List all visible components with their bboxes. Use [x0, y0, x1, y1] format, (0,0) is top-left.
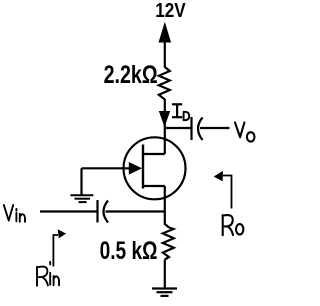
supply arrow up [159, 24, 170, 67]
channel bar [142, 145, 144, 189]
label Ro [223, 215, 244, 235]
capacitor C1 input [98, 200, 109, 223]
source lead [164, 186, 166, 213]
annotation arrow Rin [53, 235, 58, 267]
drain contact [143, 153, 165, 155]
capacitor C2 output [192, 117, 203, 140]
resistor R2 0.5k zigzag [163, 228, 174, 260]
wire source junction down with jog [165, 212, 169, 228]
gate arrow [129, 163, 141, 174]
label Vo [235, 123, 255, 142]
wire drain rail [164, 101, 166, 154]
gate ground stem [80, 168, 82, 195]
wire cap to Vo [200, 127, 230, 129]
wire Vin to cap [40, 210, 97, 212]
source contact [143, 185, 165, 187]
resistor R1 2.2k zigzag [159, 66, 170, 101]
svg-text:0.5 kΩ: 0.5 kΩ [100, 237, 158, 265]
wire cap to source junction [106, 210, 165, 212]
wire drain to output cap [165, 127, 191, 129]
ground GND2 [152, 289, 177, 296]
ground GND1 [70, 195, 93, 202]
wire resistor to ground [164, 260, 166, 289]
current arrow ID [160, 112, 170, 126]
svg-text:12V: 12V [155, 0, 186, 22]
label Rin [37, 262, 59, 286]
annotation arrow Ro [223, 176, 232, 209]
label Vin [4, 205, 25, 222]
svg-text:2.2kΩ: 2.2kΩ [104, 61, 158, 89]
gate wire [82, 167, 140, 169]
label ID [172, 104, 182, 117]
transistor Q1 circle [124, 137, 186, 199]
